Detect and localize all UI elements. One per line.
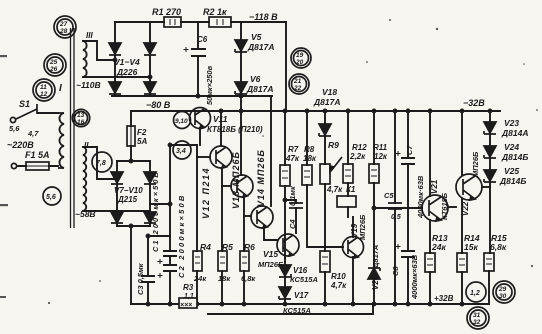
svg-text:Д215: Д215 bbox=[117, 195, 138, 204]
resistor R6 bbox=[240, 251, 249, 271]
svg-text:5,6: 5,6 bbox=[46, 194, 56, 201]
wire -80V / -32V rail bbox=[131, 110, 500, 112]
pin circle 15 16 bbox=[72, 109, 89, 126]
svg-text:Д817А: Д817А bbox=[313, 97, 340, 107]
svg-text:С6: С6 bbox=[197, 35, 208, 44]
diode V1 bbox=[109, 43, 121, 55]
svg-text:R12: R12 bbox=[352, 143, 367, 152]
svg-text:V21: V21 bbox=[430, 179, 439, 194]
wire V13 emitter to R6 column bbox=[243, 197, 245, 251]
wire node 3,4 to R4 column bbox=[170, 145, 197, 251]
svg-text:6,8к: 6,8к bbox=[241, 274, 256, 283]
svg-text:15к: 15к bbox=[464, 242, 478, 252]
wire winding II top lead bbox=[83, 147, 117, 179]
wire lower sub rail bbox=[208, 304, 373, 314]
wire V14 collector column bbox=[270, 96, 272, 206]
resistor R5 bbox=[218, 251, 227, 271]
wire F2 column bbox=[130, 111, 132, 161]
wire V5 V6 column to V13 collector bbox=[240, 22, 242, 175]
wire bridge2 bottom rail bbox=[117, 225, 150, 227]
svg-text:9,10: 9,10 bbox=[175, 118, 188, 125]
wire V11 emitter drop bbox=[199, 128, 201, 145]
wire bridge2 right leg bbox=[149, 161, 151, 226]
capacitor C2 bbox=[163, 265, 177, 271]
wire V14 base tick bbox=[244, 215, 251, 217]
svg-text:К1: К1 bbox=[346, 185, 356, 194]
svg-text:3,4: 3,4 bbox=[176, 148, 186, 155]
svg-text:−80 В: −80 В bbox=[146, 100, 171, 110]
svg-text:R3: R3 bbox=[183, 283, 194, 292]
transformer winding III bbox=[83, 41, 87, 77]
svg-text:21: 21 bbox=[293, 78, 302, 85]
svg-text:F2: F2 bbox=[137, 128, 147, 137]
svg-text:7,8: 7,8 bbox=[96, 160, 106, 167]
transistor V12 bbox=[210, 146, 232, 168]
wire F1 to winding I bbox=[17, 165, 58, 167]
wire R12 K1 column bbox=[347, 111, 349, 217]
resistor R8 bbox=[302, 165, 312, 185]
svg-text:47к: 47к bbox=[285, 154, 300, 163]
wire winding III bottom lead bbox=[83, 76, 150, 78]
svg-text:V16: V16 bbox=[293, 266, 308, 275]
transistor V22 bbox=[456, 174, 482, 200]
diode V2 bbox=[144, 43, 156, 55]
svg-text:+32В: +32В bbox=[434, 294, 454, 303]
svg-text:Д814Б: Д814Б bbox=[499, 176, 526, 186]
zener V25 bbox=[484, 170, 496, 182]
resistor R13 bbox=[425, 253, 435, 272]
svg-text:Д814Б: Д814Б bbox=[501, 152, 528, 162]
capacitor C8 bbox=[401, 251, 415, 257]
svg-text:4,7к: 4,7к bbox=[326, 185, 343, 194]
wire C6 column bbox=[197, 22, 199, 96]
pin circle 31 32 bbox=[467, 307, 489, 329]
wire C7 C8 column bbox=[407, 111, 409, 304]
svg-text:F1 5А: F1 5А bbox=[25, 150, 50, 160]
svg-text:~110В: ~110В bbox=[76, 80, 101, 90]
svg-text:V5: V5 bbox=[251, 32, 262, 42]
svg-text:12: 12 bbox=[40, 91, 48, 98]
resistor R11 bbox=[369, 164, 379, 183]
pin circle 3 4 bbox=[173, 141, 191, 159]
svg-text:V22: V22 bbox=[461, 201, 470, 216]
svg-text:II: II bbox=[84, 141, 89, 150]
svg-text:V18: V18 bbox=[322, 87, 337, 97]
resistor R15 bbox=[484, 253, 494, 271]
wire R11 V20 column bbox=[373, 111, 375, 304]
wire V23 chain R15 column bbox=[489, 111, 490, 304]
svg-text:0,5: 0,5 bbox=[391, 214, 401, 221]
svg-text:V20: V20 bbox=[371, 275, 380, 290]
pin circle 21 22 bbox=[289, 74, 309, 94]
svg-text:4000мк×63В: 4000мк×63В bbox=[410, 254, 419, 300]
pin circle 1 2 bbox=[466, 282, 486, 302]
svg-text:5,6: 5,6 bbox=[9, 124, 20, 133]
svg-text:R9: R9 bbox=[328, 140, 339, 150]
svg-text:28: 28 bbox=[59, 28, 68, 35]
svg-text:1,2: 1,2 bbox=[470, 290, 480, 297]
svg-text:МП26Б: МП26Б bbox=[471, 151, 480, 177]
transistor V15 bbox=[277, 234, 299, 256]
capacitor C7 bbox=[401, 158, 415, 164]
svg-text:V11: V11 bbox=[213, 114, 228, 124]
svg-text:4,7к: 4,7к bbox=[330, 281, 347, 290]
pin circle 25 26 bbox=[44, 54, 66, 76]
svg-text:16: 16 bbox=[77, 119, 85, 126]
wire V21 base link bbox=[374, 207, 422, 209]
svg-text:Д817А: Д817А bbox=[246, 84, 273, 94]
wire C3 column bbox=[148, 236, 170, 304]
svg-text:1,1: 1,1 bbox=[184, 293, 194, 300]
svg-text:R8: R8 bbox=[304, 145, 315, 154]
wire winding III top lead bbox=[83, 41, 115, 60]
transformer winding I bbox=[59, 113, 64, 168]
svg-text:18к: 18к bbox=[218, 274, 231, 283]
wire V21 column bbox=[429, 111, 431, 304]
svg-text:КС515А: КС515А bbox=[283, 306, 311, 315]
pin circle 9 10 bbox=[174, 112, 191, 129]
svg-text:С1 2000мк×50В: С1 2000мк×50В bbox=[151, 170, 160, 252]
wire R8 column bbox=[307, 111, 343, 247]
wire bridge1 right leg bbox=[149, 22, 151, 96]
svg-text:29: 29 bbox=[498, 286, 507, 293]
wire winding II bottom lead bbox=[83, 210, 150, 212]
wire bridge1 negative rail bbox=[112, 95, 272, 97]
svg-text:КС515А: КС515А bbox=[290, 275, 318, 284]
diode V10 bbox=[144, 212, 156, 223]
diode V8 bbox=[144, 172, 156, 184]
wire C1 C2 column bbox=[150, 145, 170, 304]
svg-text:С3 0,5мк: С3 0,5мк bbox=[136, 262, 145, 295]
svg-text:R11: R11 bbox=[373, 143, 388, 152]
svg-text:V25: V25 bbox=[504, 166, 519, 176]
wire V22 column bbox=[461, 111, 463, 304]
wire -118V corner drop bbox=[285, 22, 287, 111]
svg-text:24к: 24к bbox=[431, 242, 446, 252]
resistor R4 bbox=[193, 251, 202, 271]
svg-text:6,8к: 6,8к bbox=[490, 242, 507, 252]
resistor R10 bbox=[320, 251, 330, 272]
svg-text:Д814А: Д814А bbox=[501, 128, 528, 138]
svg-text:R10: R10 bbox=[331, 272, 346, 281]
svg-text:12к: 12к bbox=[374, 152, 388, 161]
svg-text:III: III bbox=[86, 31, 93, 40]
wire V22 base tick bbox=[482, 186, 490, 188]
svg-text:I: I bbox=[59, 83, 62, 94]
capacitor C3 bbox=[141, 276, 155, 282]
wire top rail -118V bbox=[115, 21, 286, 23]
zener V5 bbox=[235, 40, 247, 52]
wire R6 bottom bbox=[243, 271, 245, 304]
svg-text:~58В: ~58В bbox=[75, 209, 96, 219]
resistor R2 bbox=[209, 17, 231, 27]
wire bottom ground rail bbox=[131, 303, 488, 305]
svg-text:13: 13 bbox=[77, 112, 85, 119]
svg-text:4,7: 4,7 bbox=[27, 129, 39, 138]
wire V19 collector emitter bbox=[352, 217, 354, 304]
wire S1 to winding I bbox=[38, 112, 58, 114]
wire V15 to V16 V17 ground bbox=[284, 257, 286, 304]
svg-text:−32В: −32В bbox=[463, 98, 485, 108]
resistor R14 bbox=[457, 253, 467, 272]
transformer T1 core bbox=[71, 28, 75, 228]
zener V6 bbox=[235, 82, 247, 94]
svg-text:С5: С5 bbox=[384, 191, 394, 200]
transistor V13 bbox=[231, 175, 253, 197]
svg-text:31: 31 bbox=[473, 312, 481, 319]
wire V12 collector bbox=[220, 111, 222, 146]
wire C5 column bbox=[394, 111, 396, 304]
capacitor C5 bbox=[388, 203, 402, 209]
pin circle 5 6 bbox=[43, 187, 61, 205]
svg-text:Д817А: Д817А bbox=[247, 42, 274, 52]
capacitor C6 bbox=[191, 49, 206, 56]
svg-text:Д817А: Д817А bbox=[371, 245, 380, 269]
zener V18 bbox=[319, 124, 331, 136]
pin circle 29 30 bbox=[493, 281, 515, 303]
svg-text:МП26Б: МП26Б bbox=[258, 260, 284, 269]
svg-text:КТ618Б: КТ618Б bbox=[440, 192, 449, 220]
fuse F2 bbox=[127, 126, 135, 146]
wire bridge1 left leg bbox=[114, 22, 116, 96]
svg-text:32: 32 bbox=[473, 319, 481, 326]
svg-text:5А: 5А bbox=[137, 137, 147, 146]
svg-text:0,1мк: 0,1мк bbox=[288, 185, 297, 206]
svg-text:V24: V24 bbox=[504, 142, 519, 152]
wire V13 base tick bbox=[222, 185, 231, 187]
wire bridge2 to ground bbox=[130, 226, 132, 304]
zener V16 bbox=[279, 265, 291, 277]
svg-text:22: 22 bbox=[293, 85, 302, 92]
resistor R1 bbox=[164, 17, 181, 27]
wire V21 V22 link bbox=[448, 206, 456, 208]
transistor V14 bbox=[251, 206, 273, 228]
wire V14 emitter to V15 base bbox=[264, 228, 277, 240]
resistor R12 bbox=[343, 164, 353, 183]
svg-text:S1: S1 bbox=[19, 99, 30, 109]
junction dots bbox=[113, 58, 116, 61]
svg-text:R6: R6 bbox=[244, 242, 255, 252]
svg-text:24к: 24к bbox=[193, 274, 207, 283]
diode V9 bbox=[111, 212, 123, 223]
svg-text:V15: V15 bbox=[263, 249, 278, 259]
transistor V19 bbox=[343, 237, 364, 258]
svg-text:V23: V23 bbox=[504, 118, 519, 128]
svg-text:R5: R5 bbox=[222, 242, 233, 252]
wire V12 base tick bbox=[197, 156, 210, 158]
diode V4 bbox=[144, 82, 156, 94]
wire R7 column bbox=[284, 111, 286, 258]
pin circle 27 28 bbox=[54, 16, 76, 38]
capacitor C1 bbox=[163, 251, 177, 256]
resistor R3 thermistor bbox=[179, 298, 197, 308]
svg-text:V6: V6 bbox=[250, 74, 261, 84]
svg-text:С2 2000мк×50В: С2 2000мк×50В bbox=[177, 194, 186, 278]
zener V24 bbox=[484, 146, 496, 158]
svg-text:27: 27 bbox=[59, 21, 68, 28]
transistor V21 bbox=[422, 195, 448, 221]
svg-text:R2 1к: R2 1к bbox=[203, 7, 227, 17]
svg-text:19: 19 bbox=[296, 52, 304, 59]
capacitor C4 bbox=[289, 203, 303, 208]
wire R4 bottom bbox=[196, 271, 198, 304]
transformer winding II bbox=[83, 147, 86, 211]
svg-text:С8: С8 bbox=[391, 266, 400, 276]
svg-text:25: 25 bbox=[49, 59, 58, 66]
svg-text:11: 11 bbox=[40, 84, 47, 91]
svg-text:18к: 18к bbox=[303, 154, 317, 163]
svg-text:R7: R7 bbox=[288, 145, 299, 154]
svg-text:50мк×250в: 50мк×250в bbox=[205, 65, 214, 105]
zener V17 bbox=[279, 287, 291, 299]
transistor V11 bbox=[190, 108, 211, 129]
resistor R7 bbox=[280, 165, 290, 186]
wire R5 bottom bbox=[221, 271, 223, 304]
relay K1 bbox=[337, 196, 356, 207]
wire bridge2 top rail bbox=[117, 160, 150, 162]
diode V3 bbox=[109, 82, 121, 94]
svg-text:R1 270: R1 270 bbox=[152, 7, 181, 17]
svg-text:R4: R4 bbox=[200, 242, 211, 252]
zener V23 bbox=[484, 122, 496, 134]
svg-text:V12 П214: V12 П214 bbox=[201, 167, 211, 219]
svg-text:4000мк·63В: 4000мк·63В bbox=[416, 175, 425, 219]
wire C4 stub bbox=[285, 200, 296, 233]
zener V20 bbox=[368, 268, 380, 279]
potentiometer R9 bbox=[320, 164, 330, 184]
fuse F1 bbox=[11, 163, 16, 168]
svg-text:V14 МП26Б: V14 МП26Б bbox=[256, 149, 266, 207]
svg-text:V7−V10: V7−V10 bbox=[114, 186, 143, 195]
switch S1 bbox=[10, 117, 15, 122]
svg-text:26: 26 bbox=[49, 66, 58, 73]
svg-text:МП26Б: МП26Б bbox=[358, 214, 367, 240]
svg-text:×××: ××× bbox=[180, 302, 192, 309]
svg-text:С7: С7 bbox=[405, 145, 414, 155]
svg-text:С4: С4 bbox=[288, 219, 297, 229]
svg-text:V1−V4: V1−V4 bbox=[114, 57, 140, 67]
wire V18 R9 column bbox=[324, 111, 326, 304]
wire V12 emitter to R5 column bbox=[221, 168, 223, 251]
pin circle 19 20 bbox=[291, 48, 311, 68]
diode V7 bbox=[111, 172, 123, 184]
pin circle 7 8 bbox=[92, 152, 112, 172]
svg-text:V17: V17 bbox=[294, 291, 309, 300]
svg-text:2,2к: 2,2к bbox=[349, 152, 366, 161]
svg-text:Д226: Д226 bbox=[116, 67, 138, 77]
svg-text:−118 В: −118 В bbox=[249, 12, 278, 22]
svg-text:V13 МП26Б: V13 МП26Б bbox=[231, 151, 241, 209]
pin circle 11 12 bbox=[33, 79, 55, 101]
wire bridge2 left leg bbox=[116, 161, 118, 226]
svg-text:20: 20 bbox=[295, 59, 304, 66]
svg-text:~220В: ~220В bbox=[7, 140, 34, 150]
svg-text:30: 30 bbox=[499, 293, 507, 300]
svg-text:КТ818Б (П210): КТ818Б (П210) bbox=[207, 125, 263, 134]
